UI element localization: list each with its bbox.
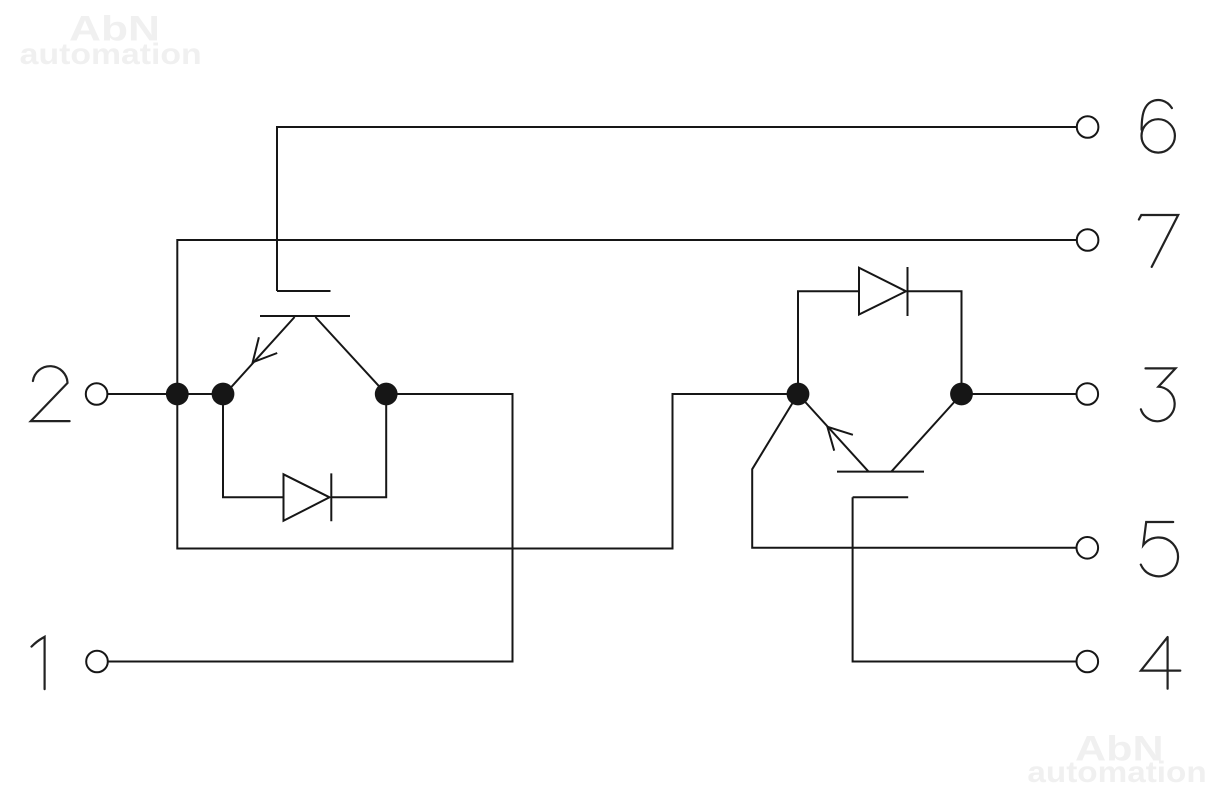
terminal pin 4 [1077, 651, 1099, 673]
terminal pin 7 [1077, 229, 1099, 251]
wire pin6 to gate of Q1 [277, 127, 1077, 291]
terminal pin 6 [1077, 116, 1099, 138]
pin label 1 [32, 637, 45, 689]
terminal pin 5 [1077, 537, 1099, 559]
junction node dot (Q2 collector) [950, 383, 973, 406]
svg-text:automation: automation [1027, 756, 1206, 789]
junction node dot (pin7 / pin2) [166, 383, 189, 406]
junction node dot (Q1 emitter) [212, 383, 235, 406]
pin label 5 [1141, 522, 1178, 576]
wire diode D2 loop left [798, 291, 859, 394]
pin label 7 [1139, 215, 1178, 267]
terminal pin 3 [1077, 383, 1099, 405]
junction node dot (Q2 emitter) [787, 383, 810, 406]
transistor Q1 emitter lead [225, 317, 295, 394]
wire Q2 gate to pin 4 [853, 497, 1077, 661]
watermark top-left [20, 10, 202, 72]
transistor Q1 gate bar [277, 290, 331, 292]
terminal pin 2 [86, 383, 108, 405]
pin label 3 [1141, 368, 1176, 421]
wire collector Q1 to pin 1 [108, 394, 513, 662]
transistor Q1 collector lead [315, 317, 386, 394]
wire pin7 to common emitter node [177, 240, 1077, 549]
wire Q2 emitter to pin 5 [752, 394, 1077, 548]
pin label 6 [1142, 100, 1175, 153]
wire pin2 to emitter node [107, 393, 223, 395]
wire diode D1 loop right [331, 394, 386, 497]
transistor Q1 emitter arrow [253, 337, 278, 362]
watermark bottom-right [1027, 730, 1206, 790]
diode D1 [284, 473, 332, 521]
svg-text:automation: automation [20, 38, 202, 71]
transistor Q2 collector lead [891, 394, 961, 472]
wire diode D2 loop right [908, 291, 962, 394]
wire diode D1 loop left [223, 394, 284, 497]
junction node dot (Q1 collector) [375, 383, 398, 406]
pin label 4 [1141, 637, 1180, 689]
transistor Q2 emitter lead [798, 394, 869, 472]
wire Q2 collector to pin 3 [962, 393, 1077, 395]
diode D2 [859, 267, 908, 316]
transistor Q2 channel bar [837, 471, 924, 473]
pin label 2 [31, 366, 70, 421]
transistor Q2 gate bar [853, 496, 909, 498]
transistor Q1 channel bar [260, 315, 350, 317]
transistor Q2 emitter arrow [827, 427, 853, 451]
terminal pin 1 [86, 651, 108, 673]
